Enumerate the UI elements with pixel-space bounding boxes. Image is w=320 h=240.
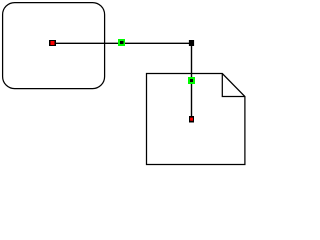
handle: red connected endpoint on rounded rectangle	[49, 40, 56, 46]
canvas background	[0, 0, 247, 166]
document (note) shape outline	[147, 74, 245, 165]
handle: black corner node of connector	[189, 40, 194, 46]
handle: green midpoint on vertical segment	[188, 77, 195, 84]
handle: red connected endpoint on document shape	[189, 116, 194, 123]
rounded rectangle shape	[3, 3, 105, 89]
wire: vertical connector segment	[191, 43, 193, 119]
wire: horizontal connector segment	[52, 42, 192, 44]
handle: green midpoint on horizontal segment	[118, 39, 125, 46]
document fold lines	[222, 74, 245, 97]
